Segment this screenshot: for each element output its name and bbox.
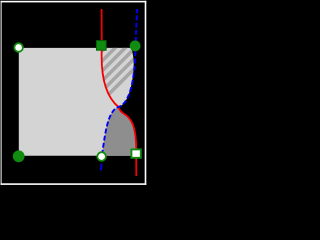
- marker: white circle top-left corner: [14, 43, 23, 52]
- marker: white circle on bottom edge (blue curve exit): [97, 152, 106, 161]
- square N (light gray region, right side bounded by curves): [19, 48, 136, 156]
- marker: green circle bottom-left corner: [13, 150, 25, 162]
- blue dash segment below bottom circle: [100, 164, 102, 171]
- white frame: [1, 1, 147, 185]
- marker: green circle top-right corner: [130, 41, 141, 52]
- dark gray lobe below crossing: [102, 107, 136, 156]
- marker: green square on top edge (red curve entry): [97, 41, 107, 51]
- hatched region between red and blue curves above crossing: [0, 40, 163, 180]
- marker: white square bottom-right corner (red curve exit): [131, 149, 140, 157]
- blue dashed curve: [102, 9, 137, 156]
- red curve: [102, 9, 137, 176]
